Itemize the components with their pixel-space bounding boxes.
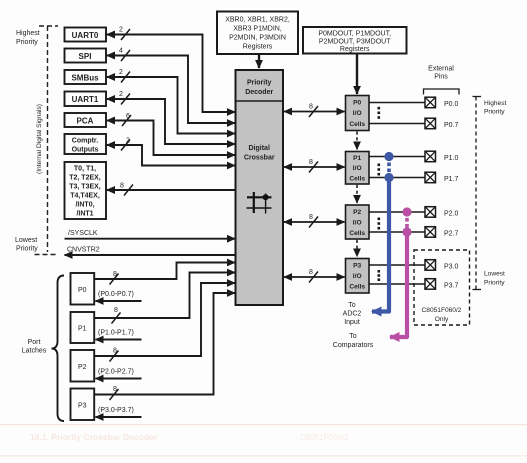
block P2 I/O Cells bbox=[346, 205, 370, 239]
svg-text:(P0.0-P0.7): (P0.0-P0.7) bbox=[98, 291, 134, 298]
wire crossbar-P1cells bbox=[284, 166, 345, 168]
wire Comptr-crossbar bbox=[107, 145, 235, 166]
svg-text:Cells: Cells bbox=[349, 284, 365, 291]
wire P2cells-P3cells dashed bbox=[356, 240, 358, 257]
svg-text:Priority: Priority bbox=[16, 246, 38, 253]
bus slash P3 8 bbox=[110, 386, 119, 400]
register box XBR/MDIN bbox=[217, 12, 298, 55]
pin P3.0 bbox=[425, 260, 459, 271]
junction dots P0 bbox=[378, 107, 381, 119]
pin P1.0 bbox=[425, 151, 459, 162]
svg-text:UART0: UART0 bbox=[72, 31, 99, 40]
label Lowest Priority (left) bbox=[15, 237, 38, 253]
bus slash 8 P3cells bbox=[309, 269, 318, 283]
svg-text:4: 4 bbox=[119, 48, 123, 55]
svg-text:Outputs: Outputs bbox=[72, 147, 99, 154]
pin P2.7 bbox=[425, 227, 459, 238]
svg-text:I/O: I/O bbox=[353, 273, 362, 280]
svg-text:Input: Input bbox=[344, 319, 360, 326]
wire P1cells-pin P1.7 bbox=[369, 177, 425, 179]
svg-text:Comptr.: Comptr. bbox=[72, 138, 99, 145]
pin P3.7 bbox=[425, 279, 459, 290]
svg-text:Highest: Highest bbox=[484, 100, 507, 107]
svg-text:8: 8 bbox=[309, 214, 313, 221]
block PCA bbox=[65, 113, 107, 127]
bus slash Comptr bbox=[121, 138, 130, 151]
svg-text:P0.7: P0.7 bbox=[444, 122, 459, 129]
svg-text:8: 8 bbox=[113, 348, 117, 355]
crossbar symbol bbox=[247, 192, 272, 214]
svg-text:Priority: Priority bbox=[247, 80, 272, 87]
svg-text:T2, T2EX,: T2, T2EX, bbox=[69, 175, 101, 182]
wire crossbar-P0cells bbox=[284, 111, 345, 113]
wire SPI-crossbar bbox=[107, 56, 235, 124]
bus slash P1 8 bbox=[112, 307, 121, 324]
svg-text:T0, T1,: T0, T1, bbox=[74, 166, 96, 173]
svg-text:P2MDIN, P3MDIN: P2MDIN, P3MDIN bbox=[229, 35, 286, 42]
svg-text:8: 8 bbox=[309, 269, 313, 276]
bus slash SPI bbox=[119, 48, 130, 62]
bracket highest-priority (left dashed) bbox=[35, 26, 59, 255]
svg-text:P1.0: P1.0 bbox=[444, 155, 459, 162]
net ADC2 blue bbox=[372, 152, 394, 312]
box C8051F060/2 only dashed bbox=[414, 250, 470, 325]
svg-text:XBR0, XBR1, XBR2,: XBR0, XBR1, XBR2, bbox=[225, 17, 290, 24]
bus slash 8 P1cells bbox=[309, 159, 318, 173]
svg-text:P3: P3 bbox=[353, 263, 361, 270]
wire P0 return bbox=[96, 300, 142, 302]
svg-text:Latches: Latches bbox=[22, 348, 47, 355]
svg-text:SMBus: SMBus bbox=[71, 73, 99, 82]
bus slash 8 P0cells bbox=[309, 104, 318, 118]
svg-text:6: 6 bbox=[126, 113, 130, 120]
pin P0.0 bbox=[425, 97, 459, 108]
wire P0 latch-crossbar bbox=[94, 263, 235, 280]
net Comparators magenta bbox=[390, 207, 412, 337]
svg-text:8: 8 bbox=[309, 159, 313, 166]
svg-text:P3.0: P3.0 bbox=[444, 264, 459, 271]
wire PCA-crossbar bbox=[107, 121, 235, 156]
svg-text:(P2.0-P2.7): (P2.0-P2.7) bbox=[98, 369, 134, 376]
wire P3cells-pin P3.7 bbox=[369, 283, 425, 285]
bus slash PCA bbox=[122, 113, 131, 126]
svg-text:2: 2 bbox=[119, 69, 123, 76]
bus slash UART0 bbox=[119, 27, 130, 41]
wire P1cells-pin P1.0 bbox=[369, 156, 425, 158]
latch P1 bbox=[71, 312, 95, 343]
svg-text:Crossbar: Crossbar bbox=[244, 155, 275, 162]
svg-text:To: To bbox=[349, 333, 357, 340]
svg-text:Pins: Pins bbox=[434, 74, 448, 81]
wire P2cells-pin P2.7 bbox=[369, 231, 425, 233]
label To Comparators bbox=[333, 333, 374, 349]
svg-text:Decoder: Decoder bbox=[245, 89, 273, 96]
latch P3 bbox=[71, 389, 95, 421]
bus slash SMBus bbox=[119, 69, 130, 83]
svg-text:2: 2 bbox=[119, 91, 123, 98]
svg-text:Digital: Digital bbox=[249, 145, 270, 152]
block SPI bbox=[65, 49, 107, 63]
wire MDOUT-P0cells bbox=[356, 54, 358, 95]
svg-text:P0MDOUT, P1MDOUT,: P0MDOUT, P1MDOUT, bbox=[318, 31, 391, 38]
svg-text:ADC2: ADC2 bbox=[343, 311, 362, 318]
svg-text:Registers: Registers bbox=[340, 46, 370, 53]
svg-text:Cells: Cells bbox=[349, 176, 365, 183]
bus slash P0 8 bbox=[110, 271, 119, 285]
wire UART0-crossbar bbox=[107, 35, 235, 113]
label Port Latches bbox=[22, 339, 47, 355]
svg-text:T4,T4EX,: T4,T4EX, bbox=[70, 193, 100, 200]
wire P0cells-P1cells dashed bbox=[356, 132, 358, 150]
wire crossbar-P2cells bbox=[284, 221, 345, 223]
svg-text:P1.7: P1.7 bbox=[444, 176, 459, 183]
svg-text:I/O: I/O bbox=[353, 110, 362, 117]
bracket priority (right dashed) bbox=[473, 97, 482, 290]
net /SYSCLK bbox=[65, 230, 236, 239]
svg-text:CNVSTR2: CNVSTR2 bbox=[67, 247, 100, 254]
svg-text:(Internal Digital Signals): (Internal Digital Signals) bbox=[36, 104, 43, 174]
svg-text:Priority: Priority bbox=[16, 39, 38, 46]
crossbar U1 bbox=[236, 70, 284, 305]
brace port latches bbox=[52, 276, 65, 422]
label Lowest Priority (right) bbox=[484, 271, 505, 287]
svg-text:(P1.0-P1.7): (P1.0-P1.7) bbox=[98, 330, 134, 337]
label To ADC2 Input bbox=[343, 302, 362, 326]
block P1 I/O Cells bbox=[346, 152, 370, 185]
svg-text:8: 8 bbox=[113, 386, 117, 393]
wire UART1-crossbar bbox=[107, 99, 235, 144]
wire P1 latch-crossbar bbox=[94, 273, 235, 319]
wire XBR-decoder bbox=[258, 55, 260, 69]
svg-text:18.1. Priority Crossbar Decod: 18.1. Priority Crossbar Decoder bbox=[30, 432, 158, 442]
wire timers-crossbar bbox=[107, 189, 236, 191]
svg-text:Priority: Priority bbox=[484, 109, 505, 116]
svg-text:C8051F060/2: C8051F060/2 bbox=[300, 433, 349, 442]
wire P3 return bbox=[96, 416, 142, 418]
block SMBus bbox=[65, 70, 107, 84]
latch P0 bbox=[71, 273, 95, 305]
svg-text:P3.7: P3.7 bbox=[444, 283, 459, 290]
label External Pins bbox=[428, 66, 454, 81]
svg-text:Priority: Priority bbox=[484, 280, 505, 287]
bus slash P2 8 bbox=[110, 348, 119, 362]
svg-text:C8051F060/2: C8051F060/2 bbox=[422, 307, 462, 314]
net CNVSTR2 bbox=[65, 247, 236, 256]
svg-text:/INT1: /INT1 bbox=[76, 211, 93, 218]
block P3 I/O Cells bbox=[346, 259, 370, 294]
svg-text:I/O: I/O bbox=[353, 220, 362, 227]
svg-text:P2.0: P2.0 bbox=[444, 211, 459, 218]
svg-text:I/O: I/O bbox=[353, 165, 362, 172]
label Highest Priority (right) bbox=[484, 100, 507, 116]
svg-text:Lowest: Lowest bbox=[15, 237, 37, 244]
wire P2 return bbox=[96, 378, 142, 380]
block UART0 bbox=[65, 28, 107, 42]
svg-text:To: To bbox=[348, 302, 356, 309]
pin P1.7 bbox=[425, 172, 459, 183]
wire crossbar-P3cells bbox=[284, 276, 345, 278]
svg-text:XBR3 P1MDIN,: XBR3 P1MDIN, bbox=[233, 26, 282, 33]
svg-text:8: 8 bbox=[113, 271, 117, 278]
svg-text:/INT0,: /INT0, bbox=[75, 202, 94, 209]
pin P0.7 bbox=[425, 118, 459, 129]
svg-text:Only: Only bbox=[435, 316, 449, 323]
svg-text:Highest: Highest bbox=[16, 30, 40, 37]
svg-text:T3, T3EX,: T3, T3EX, bbox=[69, 184, 101, 191]
svg-text:Lowest: Lowest bbox=[484, 271, 505, 278]
faint page artifact line bbox=[0, 424, 527, 425]
wire P3cells-pin P3.0 bbox=[369, 264, 425, 266]
register box MDOUT bbox=[303, 27, 407, 54]
latch P2 bbox=[71, 350, 95, 382]
svg-text:P1: P1 bbox=[353, 155, 361, 162]
wire P1cells-P2cells dashed bbox=[356, 185, 358, 203]
svg-text:Cells: Cells bbox=[349, 121, 365, 128]
bracket external pins bbox=[424, 89, 460, 95]
svg-text:/SYSCLK: /SYSCLK bbox=[68, 230, 98, 237]
svg-text:SPI: SPI bbox=[79, 52, 92, 61]
svg-text:P2MDOUT, P3MDOUT: P2MDOUT, P3MDOUT bbox=[319, 39, 391, 46]
svg-text:Port: Port bbox=[28, 339, 41, 346]
svg-text:2: 2 bbox=[126, 138, 130, 145]
svg-text:UART1: UART1 bbox=[72, 95, 99, 104]
svg-text:8: 8 bbox=[114, 307, 118, 314]
svg-text:2: 2 bbox=[119, 27, 123, 34]
svg-text:P1: P1 bbox=[78, 326, 87, 333]
svg-text:P2: P2 bbox=[78, 364, 87, 371]
svg-text:P0: P0 bbox=[353, 100, 361, 107]
svg-text:External: External bbox=[428, 66, 454, 73]
pin P2.0 bbox=[425, 207, 459, 218]
wire SMBus-crossbar bbox=[107, 77, 235, 134]
junction dots P1 bbox=[378, 164, 381, 176]
wire P0cells-pin P0.7 bbox=[369, 123, 425, 125]
label Highest Priority (left) bbox=[16, 30, 40, 46]
bus slash UART1 bbox=[119, 91, 130, 105]
svg-text:(P3.0-P3.7): (P3.0-P3.7) bbox=[98, 407, 134, 414]
block Timers-Interrupts bbox=[65, 162, 107, 219]
svg-text:8: 8 bbox=[309, 104, 313, 111]
wire P0cells-pin P0.0 bbox=[369, 102, 425, 104]
svg-text:8: 8 bbox=[120, 183, 124, 190]
svg-text:Cells: Cells bbox=[349, 230, 365, 237]
svg-text:P0.0: P0.0 bbox=[444, 101, 459, 108]
svg-text:Registers: Registers bbox=[243, 44, 273, 51]
block P0 I/O Cells bbox=[346, 96, 370, 131]
svg-text:P3: P3 bbox=[78, 403, 87, 410]
block UART1 bbox=[65, 92, 107, 107]
junction dots P3 bbox=[378, 270, 381, 281]
bus slash 8 P2cells bbox=[309, 214, 318, 228]
svg-text:P2.7: P2.7 bbox=[444, 231, 459, 238]
svg-text:Comparators: Comparators bbox=[333, 342, 374, 349]
svg-text:P2: P2 bbox=[353, 209, 361, 216]
wire P1 return bbox=[96, 339, 142, 341]
block Comptr Outputs bbox=[65, 134, 107, 154]
faint bottom band bbox=[0, 455, 527, 457]
wire P2 latch-crossbar bbox=[94, 283, 235, 356]
svg-text:PCA: PCA bbox=[77, 116, 94, 125]
wire P2cells-pin P2.0 bbox=[369, 211, 425, 213]
svg-text:P0: P0 bbox=[78, 287, 87, 294]
wire P3 latch-crossbar bbox=[94, 293, 235, 395]
bus slash timers 8 bbox=[120, 183, 133, 196]
junction dots P2 bbox=[378, 218, 381, 230]
